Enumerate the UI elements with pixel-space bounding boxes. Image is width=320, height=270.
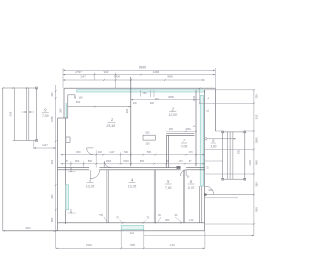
svg-text:900: 900 [169, 128, 174, 131]
dim overall 9990 [63, 69, 215, 71]
svg-text:241: 241 [130, 231, 135, 235]
svg-text:5,70: 5,70 [188, 186, 195, 190]
door arc room3 [91, 170, 100, 179]
svg-text:100: 100 [154, 98, 159, 101]
ext y174 [205, 173, 254, 175]
svg-text:4: 4 [131, 177, 134, 182]
svg-text:35: 35 [65, 160, 68, 163]
room2 top dim [131, 99, 205, 101]
svg-text:7,90: 7,90 [165, 186, 172, 190]
ext 118 [115, 73, 117, 89]
stub 140 [140, 90, 142, 97]
svg-text:1200: 1200 [249, 160, 252, 166]
wall rooms 4-5 a [153, 170, 155, 223]
ext stub 70 [70, 161, 72, 167]
svg-text:1660: 1660 [50, 116, 54, 122]
svg-text:1660: 1660 [185, 128, 191, 131]
svg-text:9990: 9990 [139, 65, 147, 69]
right dim column [253, 90, 255, 236]
wall rooms 3-4 a [106, 170, 108, 223]
bottom window glazing [121, 226, 144, 230]
ext y103 [200, 102, 254, 104]
svg-text:3,60: 3,60 [210, 144, 216, 148]
upper-left wall teal [65, 103, 67, 118]
svg-text:500: 500 [145, 132, 150, 135]
corridor wall seg bot [58, 169, 89, 171]
svg-text:90: 90 [175, 214, 178, 217]
landing line2 [205, 197, 238, 199]
svg-text:1510: 1510 [25, 227, 31, 230]
corridor wall seg bot [100, 169, 181, 171]
svg-text:1,40: 1,40 [188, 219, 193, 222]
ext y90 [205, 89, 254, 91]
svg-text:12,00: 12,00 [168, 113, 177, 117]
svg-text:565: 565 [140, 160, 145, 163]
corridor wall seg top [58, 167, 89, 169]
entry nook lines [68, 94, 75, 96]
room7 dim [166, 130, 196, 132]
top wall glazing band [77, 90, 205, 92]
svg-text:70: 70 [146, 217, 149, 220]
svg-text:450: 450 [50, 92, 54, 97]
svg-text:508: 508 [130, 243, 135, 247]
svg-text:600: 600 [76, 100, 81, 104]
svg-text:870: 870 [70, 209, 73, 214]
svg-text:1804: 1804 [106, 160, 112, 163]
svg-text:302: 302 [125, 108, 129, 113]
svg-text:7: 7 [183, 138, 186, 143]
svg-text:а1: а1 [206, 108, 209, 112]
svg-text:1147: 1147 [80, 74, 86, 78]
svg-text:1: 1 [111, 117, 114, 122]
lower-left wall outer [57, 118, 59, 231]
bottom wall top face [58, 222, 205, 224]
svg-text:240: 240 [98, 151, 103, 154]
svg-text:87: 87 [189, 160, 192, 163]
right top wall face [214, 88, 216, 131]
svg-text:170: 170 [179, 160, 184, 163]
right wall face [204, 90, 206, 231]
svg-text:500: 500 [124, 151, 129, 154]
svg-text:750: 750 [99, 214, 104, 217]
ext y224 [205, 223, 254, 225]
lower-left wall inner [65, 118, 67, 224]
left window glazing [66, 185, 69, 210]
room6 right wall a [198, 186, 200, 223]
door arc room1 entry [87, 148, 94, 155]
upper-left wall outer [63, 88, 65, 118]
porch top edge [3, 87, 37, 89]
wall rooms 5-6 a [182, 170, 184, 223]
svg-text:7,00: 7,00 [42, 114, 49, 118]
flue box left [66, 137, 70, 142]
ext stub 120 [120, 152, 122, 164]
flue box central [143, 135, 155, 140]
svg-text:7,06: 7,06 [181, 145, 188, 149]
room7 left wall b [167, 135, 169, 167]
svg-text:3940: 3940 [167, 74, 173, 78]
svg-text:750: 750 [142, 92, 147, 95]
svg-text:2: 2 [171, 106, 175, 111]
porch right edge [36, 88, 38, 141]
svg-text:565: 565 [147, 151, 152, 154]
left wall step [58, 117, 68, 119]
room6 right wall b [201, 186, 203, 223]
svg-text:1147: 1147 [42, 143, 48, 147]
svg-text:520: 520 [255, 114, 259, 119]
svg-text:800: 800 [75, 160, 80, 163]
svg-text:360: 360 [255, 182, 259, 187]
wall rooms 4-5 b [155, 170, 157, 223]
svg-text:1520: 1520 [123, 160, 129, 163]
svg-text:900: 900 [238, 149, 241, 154]
svg-text:4050: 4050 [168, 95, 174, 99]
svg-text:3: 3 [89, 177, 92, 182]
ext window right [143, 229, 145, 248]
corridor wall seg bot [186, 169, 205, 171]
porch post line 1 [14, 88, 16, 141]
ext stub 96 [95, 151, 97, 168]
svg-text:2404: 2404 [114, 74, 120, 78]
door arc room5 [181, 170, 187, 176]
top wall outer face [64, 87, 215, 89]
svg-text:90: 90 [158, 214, 161, 217]
right wall glazing band [200, 96, 203, 187]
porch post line 2 [26, 88, 28, 141]
porch dim 1147 [34, 147, 56, 149]
ext y131b [245, 130, 254, 132]
svg-text:1510: 1510 [86, 243, 92, 247]
room8 floor line [205, 160, 223, 162]
svg-text:400: 400 [133, 103, 138, 105]
stair direction line [205, 138, 207, 140]
stair tread [232, 132, 234, 179]
svg-text:6: 6 [190, 179, 193, 184]
svg-text:800: 800 [165, 219, 170, 222]
svg-text:1147: 1147 [109, 151, 115, 154]
upper-left wall inner [67, 95, 69, 118]
svg-text:920: 920 [50, 159, 54, 164]
svg-text:5: 5 [167, 179, 170, 184]
corridor wall seg top [186, 167, 205, 169]
right inner wall [195, 90, 197, 167]
svg-text:750: 750 [255, 94, 259, 99]
stair tread [229, 132, 231, 179]
dim row3 [63, 79, 205, 81]
porch mini dim arrows [22, 111, 27, 113]
svg-text:60: 60 [193, 126, 196, 128]
ext y149 [205, 148, 254, 150]
svg-text:90: 90 [166, 160, 169, 163]
porch bottom edge [13, 140, 37, 142]
svg-text:2797: 2797 [75, 70, 82, 74]
window dim right [199, 88, 201, 103]
stub 150a [149, 90, 151, 97]
svg-text:170: 170 [189, 151, 194, 154]
porch dim ext [33, 141, 35, 150]
room7 left wall a [165, 135, 167, 167]
landing line [205, 194, 254, 196]
svg-text:930: 930 [50, 194, 54, 199]
svg-text:9: 9 [44, 108, 47, 113]
svg-text:4480: 4480 [153, 70, 160, 74]
svg-text:57: 57 [207, 166, 210, 169]
nook shelf line [68, 106, 131, 108]
wall rooms 3-4 b [107, 170, 109, 223]
svg-text:900: 900 [209, 189, 214, 192]
svg-text:940: 940 [255, 160, 259, 165]
bottom wall dim 800 [154, 222, 156, 223]
svg-text:800: 800 [76, 151, 81, 154]
svg-text:70: 70 [116, 217, 119, 220]
door leaf mark [176, 166, 180, 169]
svg-text:368: 368 [9, 111, 13, 116]
svg-text:367: 367 [58, 108, 62, 113]
ext right top [214, 68, 216, 88]
room7 wall top [166, 133, 194, 135]
jamb dim bot [68, 212, 76, 214]
ext y131a [215, 130, 222, 132]
door arc right [206, 186, 214, 194]
stub 154 [153, 90, 155, 97]
door arc room4 [104, 161, 111, 168]
dim row2 [63, 74, 215, 76]
corridor dim2 [61, 163, 205, 165]
svg-text:600: 600 [150, 102, 155, 105]
stair tread [226, 132, 228, 179]
bottom wall bottom face [3, 230, 205, 232]
corridor dim1 [61, 154, 205, 156]
room7 wall bot [166, 134, 194, 136]
ext bottom right [204, 231, 206, 248]
left dim column [55, 85, 57, 248]
wall rooms 5-6 b [184, 170, 186, 223]
central wall [130, 77, 132, 166]
svg-text:13,26: 13,26 [86, 184, 95, 188]
porch left edge [2, 88, 4, 231]
svg-text:250: 250 [146, 143, 151, 146]
porch post line 3 [28, 88, 30, 141]
jamb dim top [68, 171, 76, 173]
svg-text:940: 940 [104, 70, 109, 74]
svg-text:850: 850 [88, 160, 93, 163]
svg-text:860: 860 [50, 217, 54, 222]
ext y235 [144, 235, 254, 237]
ext stub 83 [83, 161, 85, 167]
svg-text:1980: 1980 [255, 137, 259, 143]
staircase box [223, 132, 245, 179]
corridor wall seg top [100, 167, 181, 169]
svg-text:8: 8 [212, 139, 215, 143]
svg-text:13,26: 13,26 [128, 184, 137, 188]
ext window left [120, 229, 122, 248]
ext left top [62, 68, 64, 88]
bottom dim [56, 247, 205, 249]
svg-text:1,40: 1,40 [169, 243, 175, 247]
svg-text:870: 870 [70, 167, 73, 172]
svg-text:25,48: 25,48 [105, 124, 115, 128]
svg-text:100: 100 [78, 96, 83, 100]
ext 94 [94, 73, 96, 81]
svg-text:900: 900 [255, 207, 259, 212]
svg-text:а: а [208, 98, 210, 100]
